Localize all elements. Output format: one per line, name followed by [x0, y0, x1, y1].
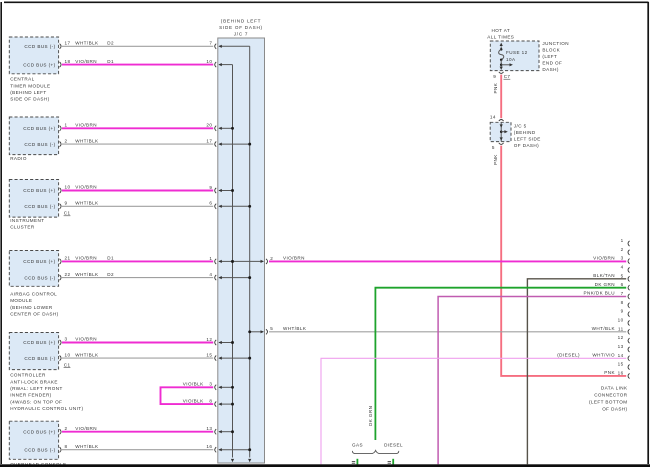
controller anti-lock brake box — [9, 333, 58, 370]
svg-text:CCD BUS (+): CCD BUS (+) — [23, 429, 55, 434]
page border right — [647, 2, 649, 464]
svg-text:(RWAL: LEFT FRONT: (RWAL: LEFT FRONT — [10, 386, 63, 391]
svg-text:PNK/DK BLU: PNK/DK BLU — [583, 291, 615, 296]
svg-text:7: 7 — [209, 41, 212, 46]
svg-text:14: 14 — [618, 353, 624, 358]
wire WHT/BLK cluster pin 9 to J/C7 pin 6 — [62, 201, 213, 207]
svg-text:SIDE OF DASH): SIDE OF DASH) — [10, 97, 49, 102]
svg-text:5: 5 — [621, 273, 624, 278]
svg-text:SIDE OF DASH): SIDE OF DASH) — [219, 25, 263, 30]
svg-text:D2: D2 — [107, 272, 114, 277]
svg-text:OF DASH): OF DASH) — [514, 143, 539, 148]
svg-text:VIO/BLK: VIO/BLK — [183, 398, 204, 403]
svg-text:PNK: PNK — [493, 154, 498, 165]
wire VIO/BRN D1 CTM pin 18 to J/C7 pin 10 — [62, 59, 213, 65]
svg-text:9: 9 — [621, 309, 624, 314]
svg-text:8: 8 — [65, 444, 68, 449]
svg-text:4: 4 — [209, 272, 212, 277]
svg-text:CCD BUS (+): CCD BUS (+) — [23, 188, 55, 193]
wire VIO/BLK loop J/C7 pin 3 to pin 8 — [161, 382, 214, 405]
svg-text:LEFT SIDE: LEFT SIDE — [514, 137, 541, 142]
svg-text:DK GRN: DK GRN — [368, 406, 373, 426]
fuse 12 value label — [506, 50, 528, 62]
svg-text:JUNCTION: JUNCTION — [542, 41, 569, 46]
instrument cluster box — [9, 180, 58, 218]
svg-text:C7: C7 — [504, 74, 511, 79]
J/C 7 pin 10 terminal — [206, 59, 232, 67]
svg-text:(BEHIND LEFT: (BEHIND LEFT — [10, 90, 46, 95]
data link connector pin 4 — [621, 264, 630, 272]
svg-text:14: 14 — [490, 115, 496, 120]
data link connector pin 2 — [621, 247, 630, 255]
wire PNK fuse to J/C5 — [493, 75, 501, 119]
svg-text:9: 9 — [65, 201, 68, 206]
svg-text:WHT/BLK: WHT/BLK — [75, 272, 99, 277]
overhead console box — [9, 421, 58, 459]
J/C 7 pin 1 terminal — [209, 256, 234, 264]
gas diesel split brace — [352, 450, 398, 453]
gas diesel split labels — [352, 443, 403, 448]
svg-text:12: 12 — [206, 337, 212, 342]
airbag control module box — [9, 251, 58, 287]
data link connector pin 10 — [618, 317, 630, 325]
svg-text:20: 20 — [206, 123, 212, 128]
svg-text:CONTROLLER: CONTROLLER — [10, 373, 46, 378]
svg-text:(LEFT: (LEFT — [542, 54, 557, 59]
radio terminal CCD BUS (-) — [24, 142, 61, 147]
junction block caption — [542, 41, 569, 72]
J/C 7 pin 12 terminal — [206, 337, 234, 345]
data link connector caption — [589, 385, 628, 411]
overhead console terminal CCD BUS (+) — [23, 429, 61, 434]
controller anti-lock brake caption — [10, 373, 83, 411]
svg-text:10: 10 — [206, 59, 212, 64]
J/C 7 pin 17 terminal — [206, 139, 251, 147]
wire WHT/BLK console pin 8 to J/C7 pin 16 — [62, 444, 213, 450]
svg-text:5: 5 — [492, 145, 495, 150]
svg-text:2: 2 — [65, 426, 68, 431]
svg-text:DIESEL: DIESEL — [384, 443, 403, 448]
svg-text:VIO/BRN: VIO/BRN — [75, 123, 97, 128]
svg-text:D2: D2 — [107, 41, 114, 46]
fuse 12 element — [499, 43, 513, 70]
junction block connector id C7 — [504, 74, 511, 79]
svg-text:(BEHIND LOWER: (BEHIND LOWER — [10, 305, 53, 310]
svg-text:(BEHIND: (BEHIND — [514, 130, 536, 135]
svg-text:WHT/BLK: WHT/BLK — [75, 352, 99, 357]
svg-text:BLOCK: BLOCK — [542, 48, 560, 53]
svg-text:DK GRN: DK GRN — [595, 282, 615, 287]
svg-text:AIRBAG CONTROL: AIRBAG CONTROL — [10, 292, 57, 297]
data link connector pin 13 — [618, 344, 630, 352]
svg-text:FUSE 12: FUSE 12 — [506, 50, 528, 55]
radio caption — [10, 156, 27, 161]
svg-text:J/C 7: J/C 7 — [234, 32, 248, 37]
J/C 5 internal wire — [500, 122, 508, 141]
wire WHT/BLK D2 CTM pin 17 to J/C7 pin 7 — [62, 41, 213, 47]
J/C 7 pin 6 terminal — [209, 201, 251, 209]
svg-text:2: 2 — [270, 256, 273, 261]
svg-text:CCD BUS (-): CCD BUS (-) — [24, 142, 55, 147]
wire WHT/BLK J/C7 pin 5 to DLC pin 11 — [269, 326, 626, 332]
data link connector pin 14 — [557, 352, 629, 360]
svg-text:1: 1 — [621, 238, 624, 243]
overhead console caption — [10, 462, 66, 467]
central timer module box — [9, 37, 58, 74]
wire WHT/VIO to DLC pin 14 — [321, 358, 626, 464]
J/C 7 location label — [219, 19, 263, 37]
data link connector pin 8 — [621, 300, 630, 308]
svg-text:C1: C1 — [64, 211, 71, 216]
wire WHT/BLK radio pin 2 to J/C7 pin 17 — [62, 138, 213, 144]
svg-text:3: 3 — [209, 382, 212, 387]
svg-text:11: 11 — [618, 326, 624, 331]
svg-text:GAS: GAS — [352, 443, 363, 448]
svg-text:VIO/BRN: VIO/BRN — [593, 255, 615, 260]
svg-text:ANTI-LOCK BRAKE: ANTI-LOCK BRAKE — [10, 379, 58, 384]
svg-text:CCD BUS (+): CCD BUS (+) — [23, 340, 55, 345]
wire DK GRN gas branch — [352, 459, 358, 465]
svg-text:CCD BUS (-): CCD BUS (-) — [24, 44, 55, 49]
svg-text:2: 2 — [65, 138, 68, 143]
J/C 5 pin 5 connector — [492, 143, 504, 150]
J/C 7 internal VIO/BRN bus wire — [232, 65, 234, 458]
J/C 7 pin 3 terminal — [209, 382, 234, 390]
svg-text:END OF: END OF — [542, 61, 562, 66]
J/C 7 pin 7 terminal — [209, 41, 249, 49]
instrument cluster connector id C1 — [64, 211, 71, 216]
svg-text:1: 1 — [65, 123, 68, 128]
svg-text:7: 7 — [621, 291, 624, 296]
svg-text:12: 12 — [618, 335, 624, 340]
controller anti-lock brake terminal CCD BUS (+) — [23, 340, 61, 345]
wire VIO/BRN J/C7 pin 2 to DLC pin 3 — [269, 255, 626, 261]
junction connector J/C 5 box — [490, 122, 511, 141]
central timer module terminal CCD BUS (+) — [23, 62, 61, 67]
svg-text:CCD BUS (-): CCD BUS (-) — [24, 356, 55, 361]
svg-text:15: 15 — [618, 362, 624, 367]
svg-text:INNER FENDER): INNER FENDER) — [10, 393, 51, 398]
airbag control module caption — [10, 292, 58, 317]
wire WHT/BLK CAB pin 10 to J/C7 pin 15 — [62, 352, 213, 358]
svg-text:CCD BUS (-): CCD BUS (-) — [24, 204, 55, 209]
wire WHT/BLK D2 airbag pin 22 to J/C7 pin 4 — [62, 272, 213, 278]
svg-text:DATA LINK: DATA LINK — [601, 385, 628, 390]
wire VIO/BRN cluster pin 10 to J/C7 pin 9 — [62, 185, 213, 191]
J/C 5 pin 14 connector — [490, 115, 504, 121]
controller anti-lock brake terminal CCD BUS (-) — [24, 356, 61, 361]
svg-text:CENTER OF DASH): CENTER OF DASH) — [10, 311, 58, 316]
svg-text:OF DASH): OF DASH) — [602, 406, 627, 411]
J/C 7 pin 8 terminal — [209, 399, 234, 407]
svg-text:HOT AT: HOT AT — [491, 28, 510, 33]
svg-text:WHT/BLK: WHT/BLK — [283, 326, 307, 331]
svg-text:CCD BUS (+): CCD BUS (+) — [23, 259, 55, 264]
instrument cluster caption — [10, 218, 44, 230]
page border left — [0, 2, 2, 464]
svg-text:VIO/BRN: VIO/BRN — [283, 255, 305, 260]
svg-text:CLUSTER: CLUSTER — [10, 225, 35, 230]
svg-text:17: 17 — [65, 41, 71, 46]
svg-text:1: 1 — [209, 256, 212, 261]
controller anti-lock brake connector id C1 — [64, 362, 71, 367]
svg-text:10: 10 — [65, 352, 71, 357]
svg-text:(DIESEL): (DIESEL) — [557, 352, 580, 357]
page border top — [4, 1, 649, 3]
svg-text:WHT/BLK: WHT/BLK — [75, 41, 99, 46]
svg-text:DASH): DASH) — [542, 67, 558, 72]
svg-text:WHT/BLK: WHT/BLK — [592, 326, 616, 331]
wire VIO/BRN D1 airbag pin 21 to J/C7 pin 1 — [62, 256, 213, 262]
svg-text:C1: C1 — [64, 362, 71, 367]
overhead console terminal CCD BUS (-) — [24, 447, 61, 452]
svg-text:16: 16 — [206, 444, 212, 449]
J/C 7 pin 15 terminal — [206, 353, 251, 361]
svg-text:8: 8 — [621, 300, 624, 305]
bottom edge bar — [0, 464, 650, 467]
wire VIO/BRN console pin 2 to J/C7 pin 13 — [62, 426, 213, 432]
svg-text:J/C 5: J/C 5 — [514, 124, 527, 129]
J/C 7 pin 13 terminal — [206, 426, 234, 434]
data link connector pin 12 — [618, 335, 630, 343]
svg-text:VIO/BRN: VIO/BRN — [75, 256, 97, 261]
wire VIO/BRN radio pin 1 to J/C7 pin 20 — [62, 123, 213, 129]
svg-text:WHT/BLK: WHT/BLK — [75, 138, 99, 143]
svg-text:ALL TIMES: ALL TIMES — [487, 34, 514, 39]
svg-text:VIO/BRN: VIO/BRN — [75, 59, 97, 64]
svg-text:3: 3 — [621, 256, 624, 261]
radio terminal CCD BUS (+) — [23, 126, 61, 131]
svg-text:WHT/BLK: WHT/BLK — [75, 201, 99, 206]
svg-text:WHT/BLK: WHT/BLK — [75, 444, 99, 449]
junction block pin 9 connector — [493, 72, 503, 79]
svg-text:22: 22 — [65, 272, 71, 277]
wire PNK J/C5 to DLC pin 16 — [493, 146, 626, 376]
svg-text:CCD BUS (-): CCD BUS (-) — [24, 275, 55, 280]
svg-text:18: 18 — [65, 59, 71, 64]
svg-text:TIMER MODULE: TIMER MODULE — [10, 83, 50, 88]
svg-text:16: 16 — [618, 370, 624, 375]
svg-text:6: 6 — [621, 282, 624, 287]
data link connector pin 1 — [621, 238, 630, 246]
svg-text:17: 17 — [206, 139, 212, 144]
svg-text:4: 4 — [621, 264, 624, 269]
svg-text:13: 13 — [618, 344, 624, 349]
svg-text:D1: D1 — [107, 256, 114, 261]
svg-text:13: 13 — [206, 426, 212, 431]
airbag control module terminal CCD BUS (+) — [23, 259, 61, 264]
svg-text:HYDRAULIC CONTROL UNIT): HYDRAULIC CONTROL UNIT) — [10, 406, 83, 411]
svg-text:(LEFT BOTTOM: (LEFT BOTTOM — [589, 399, 628, 404]
svg-text:10: 10 — [65, 185, 71, 190]
airbag control module terminal CCD BUS (-) — [24, 275, 61, 280]
central timer module caption — [10, 77, 50, 102]
hot at all times label — [487, 28, 514, 40]
svg-text:9: 9 — [493, 74, 496, 79]
svg-text:15: 15 — [206, 353, 212, 358]
J/C 7 pin 9 terminal — [209, 185, 234, 193]
svg-text:CCD BUS (+): CCD BUS (+) — [23, 126, 55, 131]
J/C 5 caption — [514, 124, 541, 149]
svg-text:CONNECTOR: CONNECTOR — [594, 392, 628, 397]
instrument cluster terminal CCD BUS (+) — [23, 188, 61, 193]
central timer module terminal CCD BUS (-) — [24, 44, 61, 49]
svg-text:PNK: PNK — [604, 370, 615, 375]
svg-text:BLK/TAN: BLK/TAN — [593, 273, 615, 278]
data link connector pin 9 — [621, 309, 630, 317]
data link connector pin 6 — [595, 282, 630, 290]
junction block box — [490, 41, 539, 71]
svg-text:RADIO: RADIO — [10, 156, 27, 161]
svg-text:CCD BUS (+): CCD BUS (+) — [23, 62, 55, 67]
svg-text:(4WABS: ON TOP OF: (4WABS: ON TOP OF — [10, 399, 62, 404]
svg-text:CCD BUS (-): CCD BUS (-) — [24, 447, 55, 452]
instrument cluster terminal CCD BUS (-) — [24, 204, 61, 209]
J/C 7 pin 4 terminal — [209, 272, 251, 280]
svg-text:MODULE: MODULE — [10, 298, 32, 303]
svg-text:10: 10 — [618, 317, 624, 322]
svg-text:6: 6 — [209, 201, 212, 206]
data link connector pin 11 — [592, 326, 630, 334]
svg-text:2: 2 — [621, 247, 624, 252]
data link connector pin 16 — [604, 370, 629, 378]
wire VIO/BRN CAB pin 3 to J/C7 pin 12 — [62, 337, 213, 343]
wire BLK/TAN to DLC pin 5 — [527, 279, 626, 464]
data link connector pin 7 — [583, 291, 629, 299]
wire DK GRN to DLC pin 6 — [368, 288, 626, 440]
J/C 7 pin 20 terminal — [206, 123, 234, 131]
svg-text:CENTRAL: CENTRAL — [10, 77, 34, 82]
svg-text:D1: D1 — [107, 59, 114, 64]
svg-text:VIO/BRN: VIO/BRN — [75, 426, 97, 431]
svg-text:9: 9 — [209, 185, 212, 190]
wire DK GRN diesel branch — [388, 459, 394, 465]
svg-text:8: 8 — [209, 399, 212, 404]
data link connector pin 3 — [593, 255, 629, 263]
J/C 7 pin 16 terminal — [206, 444, 251, 452]
radio box — [9, 117, 58, 155]
J/C 7 pin 2 terminal — [231, 256, 273, 264]
J/C 7 WHT/BLK bus exit arrow — [248, 459, 251, 462]
J/C 7 VIO/BRN bus exit arrow — [231, 459, 234, 462]
svg-text:WHT/VIO: WHT/VIO — [592, 352, 615, 357]
svg-text:VIO/BLK: VIO/BLK — [183, 382, 204, 387]
svg-text:(BEHIND LEFT: (BEHIND LEFT — [221, 19, 261, 24]
svg-text:3: 3 — [65, 337, 68, 342]
data link connector pin 15 — [618, 362, 630, 370]
svg-text:INSTRUMENT: INSTRUMENT — [10, 218, 44, 223]
svg-text:10A: 10A — [506, 57, 516, 62]
svg-text:21: 21 — [65, 256, 71, 261]
junction connector J/C 7 box — [218, 38, 265, 463]
J/C 7 internal WHT/BLK bus wire — [249, 46, 251, 457]
svg-text:PNK: PNK — [493, 82, 498, 93]
svg-text:VIO/BRN: VIO/BRN — [75, 337, 97, 342]
wire PNK/DK BLU to DLC pin 7 — [438, 297, 626, 465]
svg-text:VIO/BRN: VIO/BRN — [75, 185, 97, 190]
svg-text:5: 5 — [270, 326, 273, 331]
data link connector pin 5 — [593, 273, 629, 281]
J/C 7 pin 5 terminal — [248, 326, 273, 334]
